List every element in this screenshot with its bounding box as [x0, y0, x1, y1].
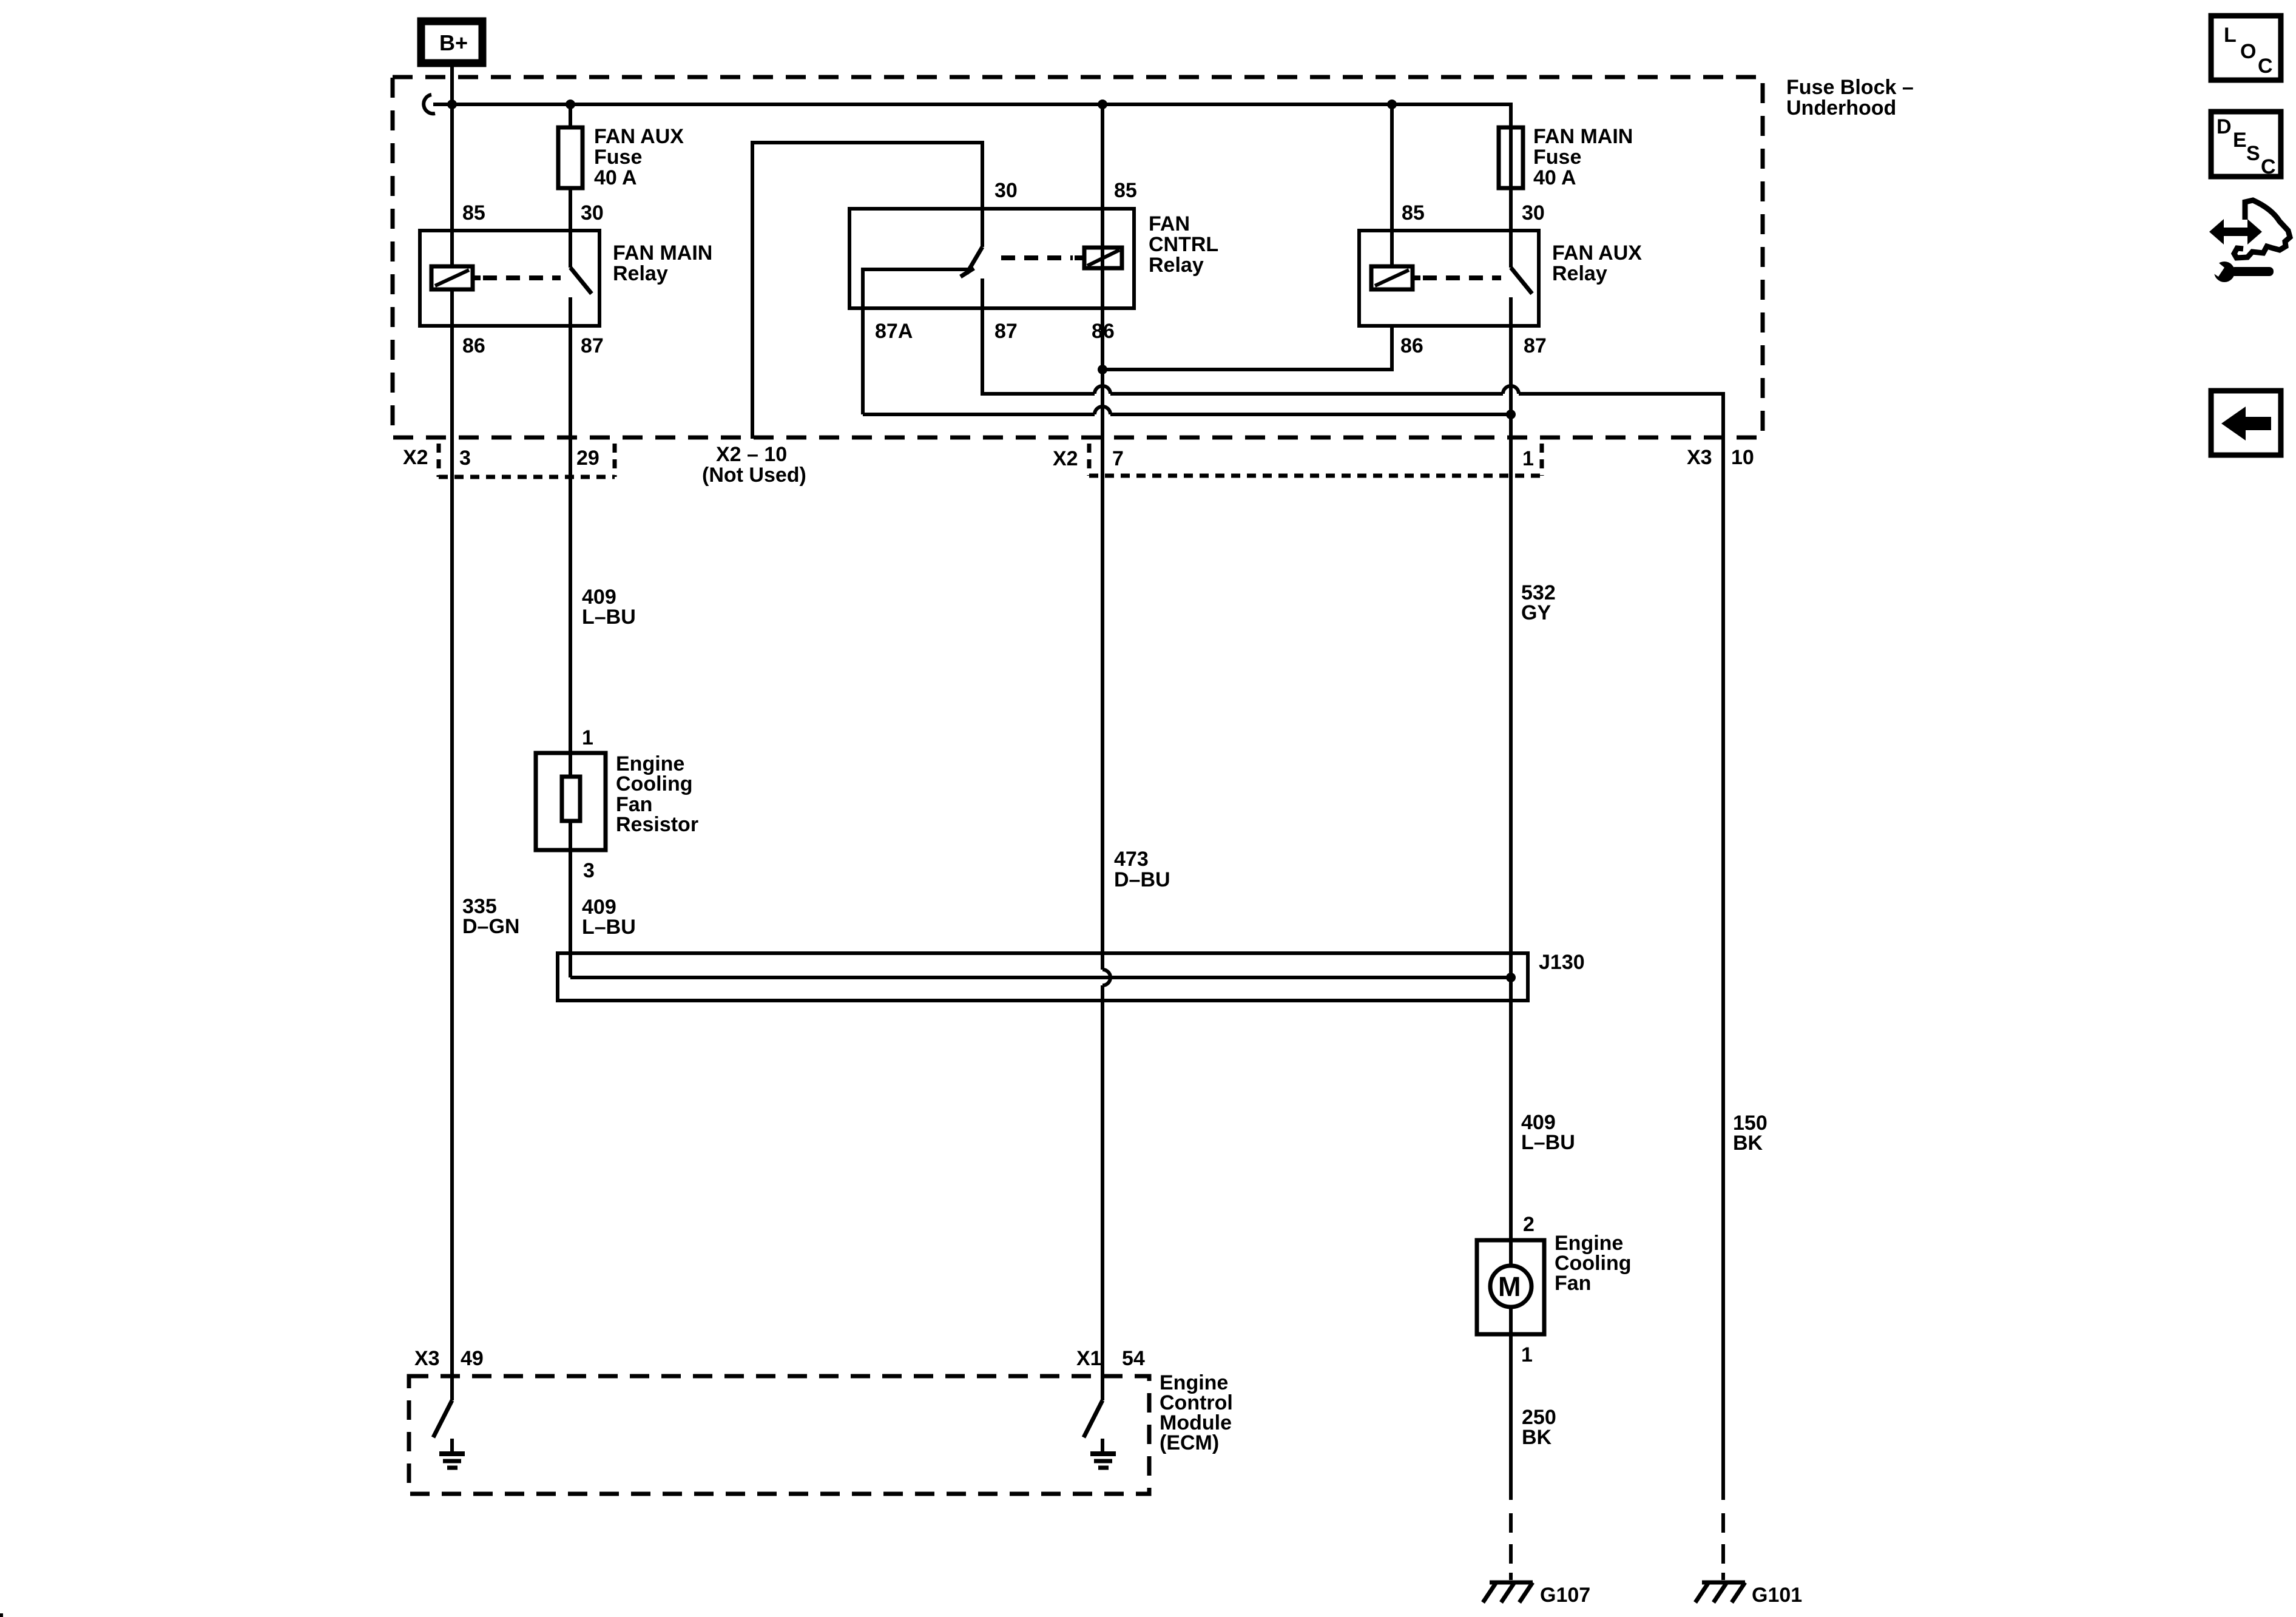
relay FAN MAIN coil-contact dashed link — [483, 275, 561, 280]
wire: FAN AUX fuse leg / relay 30 / 87 / 409 L-BU down to J130 — [569, 104, 572, 268]
svg-text:86: 86 — [462, 334, 485, 357]
switch: ECM low-side driver right — [1084, 1400, 1102, 1437]
wire: dashed continuation to G101 — [1721, 1513, 1725, 1580]
svg-text:C: C — [2261, 155, 2276, 178]
svg-text:X2 – 10: X2 – 10 — [716, 443, 787, 466]
motor Engine Cooling Fan — [1477, 1232, 1632, 1334]
svg-text:FAN MAIN: FAN MAIN — [613, 241, 712, 265]
svg-text:86: 86 — [1400, 334, 1423, 357]
svg-text:30: 30 — [581, 201, 604, 224]
wire: FAN CNTRL 87 to X3-10 (G101 leg) — [982, 279, 1095, 394]
icon back arrow — [2211, 391, 2281, 455]
fuse FAN MAIN 40A — [1499, 125, 1633, 189]
relay FAN CNTRL coil-contact dashed link — [1001, 255, 1073, 260]
svg-text:FAN AUX: FAN AUX — [594, 125, 684, 148]
wire: 87A horizontal inside relay — [863, 269, 968, 414]
svg-text:L–BU: L–BU — [582, 606, 636, 629]
svg-text:10: 10 — [1731, 446, 1754, 469]
wire: 86 net to FAN AUX relay 86 — [1102, 325, 1392, 370]
relay FAN MAIN label — [613, 241, 712, 285]
wire: splice internal — [570, 976, 1511, 979]
svg-text:30: 30 — [1522, 201, 1545, 224]
svg-text:Fuse: Fuse — [594, 146, 642, 169]
svg-text:M: M — [1498, 1271, 1521, 1302]
relay FAN CNTRL label — [1149, 212, 1218, 277]
svg-text:X3: X3 — [414, 1347, 440, 1370]
resistor Engine Cooling Fan Resistor — [536, 752, 698, 850]
relay FAN CNTRL contact tick — [961, 268, 974, 277]
svg-text:85: 85 — [1114, 179, 1137, 202]
svg-text:BK: BK — [1522, 1426, 1552, 1449]
relay FAN AUX coil-contact dashed link — [1423, 275, 1501, 280]
svg-text:Resistor: Resistor — [616, 813, 698, 836]
ground G107 — [1483, 1582, 1590, 1607]
B+ power symbol box — [421, 21, 482, 63]
svg-text:40 A: 40 A — [1533, 166, 1576, 189]
svg-text:GY: GY — [1521, 601, 1551, 624]
svg-text:85: 85 — [1402, 201, 1425, 224]
svg-text:BK: BK — [1733, 1132, 1763, 1155]
relay FAN MAIN coil — [431, 266, 481, 289]
svg-text:1: 1 — [582, 726, 593, 749]
Fuse Block - Underhood dashed box — [393, 77, 1763, 437]
relay FAN CNTRL switch arm — [967, 247, 982, 274]
switch: ECM low-side driver left — [433, 1400, 452, 1437]
wire: dashed continuation to G107 — [1509, 1513, 1513, 1580]
relay FAN CNTRL box — [849, 209, 1134, 308]
wire label 150 BK — [1733, 1112, 1768, 1155]
wire: FAN AUX relay 30/87 vertical (532 GY / 409 L-BU / 250 BK) — [1509, 129, 1513, 268]
relay FAN AUX switch arm — [1511, 268, 1532, 294]
node: bus junction at FAN AUX relay 85 — [1387, 100, 1397, 109]
svg-text:FAN: FAN — [1149, 212, 1190, 235]
wire hop over 473 leg — [1095, 407, 1110, 414]
svg-text:Underhood: Underhood — [1786, 96, 1896, 120]
relay FAN MAIN switch arm — [570, 268, 592, 294]
node: junction 86 net — [1098, 365, 1107, 374]
ECM label — [1160, 1371, 1233, 1454]
svg-text:87: 87 — [581, 334, 604, 357]
svg-text:CNTRL: CNTRL — [1149, 233, 1218, 256]
wire: main B+ bus — [433, 104, 1511, 129]
svg-text:J130: J130 — [1539, 951, 1585, 974]
svg-text:30: 30 — [994, 179, 1018, 202]
svg-text:87: 87 — [1524, 334, 1547, 357]
svg-text:3: 3 — [459, 447, 471, 470]
wire hop of 473 leg over splice — [1102, 970, 1110, 985]
relay FAN MAIN box — [420, 231, 599, 326]
svg-text:L–BU: L–BU — [582, 916, 636, 939]
svg-text:D–GN: D–GN — [462, 915, 519, 938]
page corner mark — [0, 1613, 3, 1617]
svg-text:X2: X2 — [403, 446, 428, 469]
svg-text:X2: X2 — [1053, 447, 1078, 470]
label X2-10 Not Used — [702, 443, 806, 487]
splice J130 box — [558, 951, 1585, 1001]
wire hop over 532 leg — [1503, 386, 1519, 394]
relay FAN AUX box — [1359, 231, 1539, 326]
svg-text:E: E — [2233, 129, 2247, 152]
svg-text:54: 54 — [1122, 1347, 1145, 1370]
svg-text:B+: B+ — [439, 30, 468, 55]
svg-text:1: 1 — [1521, 1343, 1533, 1366]
wire: X2-10 not used leg — [752, 143, 982, 439]
wire hop over 473 leg — [1095, 386, 1110, 394]
relay FAN CNTRL coil — [1075, 248, 1122, 268]
svg-text:(ECM): (ECM) — [1160, 1431, 1219, 1454]
svg-text:87: 87 — [994, 320, 1018, 343]
svg-text:Fuse: Fuse — [1533, 146, 1581, 169]
ECM dashed box — [409, 1376, 1149, 1494]
wire label 335 D-GN — [462, 895, 519, 938]
wire label 409 L-BU upper — [582, 586, 636, 629]
svg-text:Relay: Relay — [1149, 254, 1204, 277]
node: bus junction at FAN AUX fuse — [566, 100, 575, 109]
wire continuation curl at left end of bus — [424, 95, 435, 113]
svg-text:2: 2 — [1523, 1213, 1535, 1236]
wire label 473 D-BU — [1114, 848, 1170, 891]
icon LOC — [2211, 16, 2281, 80]
svg-text:1: 1 — [1522, 447, 1534, 470]
node: splice junction — [1506, 973, 1516, 982]
svg-text:FAN MAIN: FAN MAIN — [1533, 125, 1633, 148]
svg-text:3: 3 — [583, 859, 595, 882]
wire: 87A run to FAN AUX 87 node — [863, 413, 1095, 416]
icon DESC — [2211, 112, 2281, 178]
ground: ECM internal ground right — [1090, 1439, 1116, 1468]
svg-text:X3: X3 — [1687, 446, 1712, 469]
connector X2 left: separators and dashed bottom — [439, 444, 615, 477]
svg-text:7: 7 — [1112, 447, 1124, 470]
svg-text:D: D — [2217, 115, 2232, 138]
svg-text:49: 49 — [461, 1347, 484, 1370]
svg-text:G107: G107 — [1540, 1584, 1590, 1607]
svg-text:87A: 87A — [875, 320, 913, 343]
svg-text:G101: G101 — [1752, 1584, 1802, 1607]
svg-text:FAN AUX: FAN AUX — [1552, 241, 1642, 265]
connector X2 right: separators and dashed bottom — [1089, 444, 1542, 476]
svg-text:40 A: 40 A — [594, 166, 637, 189]
wire: B+ vertical drop (85-86 leg, 335 D-GN) — [450, 63, 454, 1400]
Fuse Block - Underhood label — [1786, 76, 1914, 120]
svg-text:(Not Used): (Not Used) — [702, 464, 806, 487]
wire: FAN AUX relay 85 leg — [1390, 104, 1394, 268]
svg-text:O: O — [2240, 40, 2256, 63]
wire label 250 BK — [1522, 1406, 1556, 1449]
svg-text:Fuse Block –: Fuse Block – — [1786, 76, 1914, 99]
fuse FAN AUX 40A — [558, 125, 684, 189]
svg-text:Relay: Relay — [613, 262, 668, 285]
svg-text:C: C — [2258, 55, 2273, 78]
svg-text:Relay: Relay — [1552, 262, 1607, 285]
svg-text:L: L — [2224, 24, 2237, 47]
svg-text:29: 29 — [576, 447, 599, 470]
wire label 409 L-BU mid — [582, 896, 636, 939]
node: bus junction at FAN CNTRL 85 — [1098, 100, 1107, 109]
wire label 409 L-BU lower — [1521, 1111, 1575, 1154]
svg-text:473: 473 — [1114, 848, 1149, 871]
svg-text:S: S — [2246, 142, 2260, 165]
node: bus junction at B+ drop — [447, 100, 457, 109]
ground G101 — [1695, 1582, 1802, 1607]
relay FAN AUX label — [1552, 241, 1642, 285]
svg-text:D–BU: D–BU — [1114, 868, 1170, 891]
node: junction at FAN AUX 87 leg — [1506, 410, 1516, 419]
relay FAN AUX coil — [1371, 266, 1420, 289]
svg-text:85: 85 — [462, 201, 485, 224]
svg-text:L–BU: L–BU — [1521, 1131, 1575, 1154]
icon harness repair (arrow and wrench) — [2205, 200, 2290, 282]
ground: ECM internal ground left — [439, 1439, 465, 1468]
wire label 532 GY — [1521, 581, 1556, 624]
svg-text:Fan: Fan — [1555, 1272, 1591, 1295]
wire: FAN CNTRL 85/86 vertical (473 D-BU) — [1101, 104, 1104, 970]
svg-text:X1: X1 — [1076, 1347, 1102, 1370]
svg-text:Cooling: Cooling — [616, 772, 693, 795]
